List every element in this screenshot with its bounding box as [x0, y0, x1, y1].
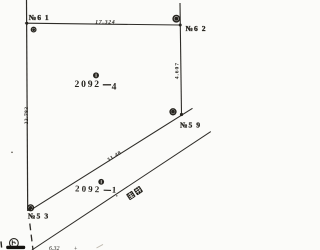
svg-text:№5 3: №5 3	[28, 212, 50, 221]
parcel point marker 2092-1	[98, 179, 104, 185]
faint cut-off text at bottom	[49, 244, 103, 250]
svg-text:4.607: 4.607	[174, 62, 180, 79]
svg-text:6.32: 6.32	[49, 246, 60, 250]
boundary top edge (No.61 to No.62)	[27, 23, 180, 25]
stray speck left middle	[11, 152, 13, 154]
svg-text:4: 4	[112, 82, 117, 93]
svg-text:2092: 2092	[75, 79, 101, 90]
corner node at No.62	[179, 24, 182, 27]
road edge line	[32, 132, 211, 250]
boundary diagonal edge (No.59 to No.53)	[32, 108, 193, 209]
svg-text:№5 9: №5 9	[180, 121, 201, 130]
corner node at No.61	[25, 22, 28, 25]
boundary left edge (No.61 to No.53)	[27, 0, 28, 211]
benchmark symbol at bottom-left edge	[6, 239, 25, 249]
survey marker No.62	[173, 16, 179, 22]
survey marker No.53	[28, 205, 34, 211]
road label (kanji, drawn)	[126, 186, 143, 201]
tick at left image edge bottom	[0, 241, 3, 247]
parcel point marker 2092-4	[93, 72, 99, 78]
parcel label 2092-1	[75, 183, 119, 198]
survey marker No.59	[170, 109, 176, 115]
svg-text:17.324: 17.324	[95, 19, 115, 25]
corner node at No.59	[180, 113, 183, 116]
boundary right edge (No.62 to No.59)	[180, 3, 182, 115]
parcel label 2092-4	[75, 79, 117, 93]
corner node at No.53	[28, 208, 31, 211]
svg-text:2092: 2092	[75, 183, 102, 194]
svg-text:22.783: 22.783	[24, 106, 30, 124]
survey marker No.61	[31, 27, 36, 32]
svg-text:№6 2: №6 2	[185, 24, 206, 33]
boundary left edge dashed continuation below No.53	[30, 224, 33, 250]
svg-text:№6 1: №6 1	[29, 13, 50, 22]
